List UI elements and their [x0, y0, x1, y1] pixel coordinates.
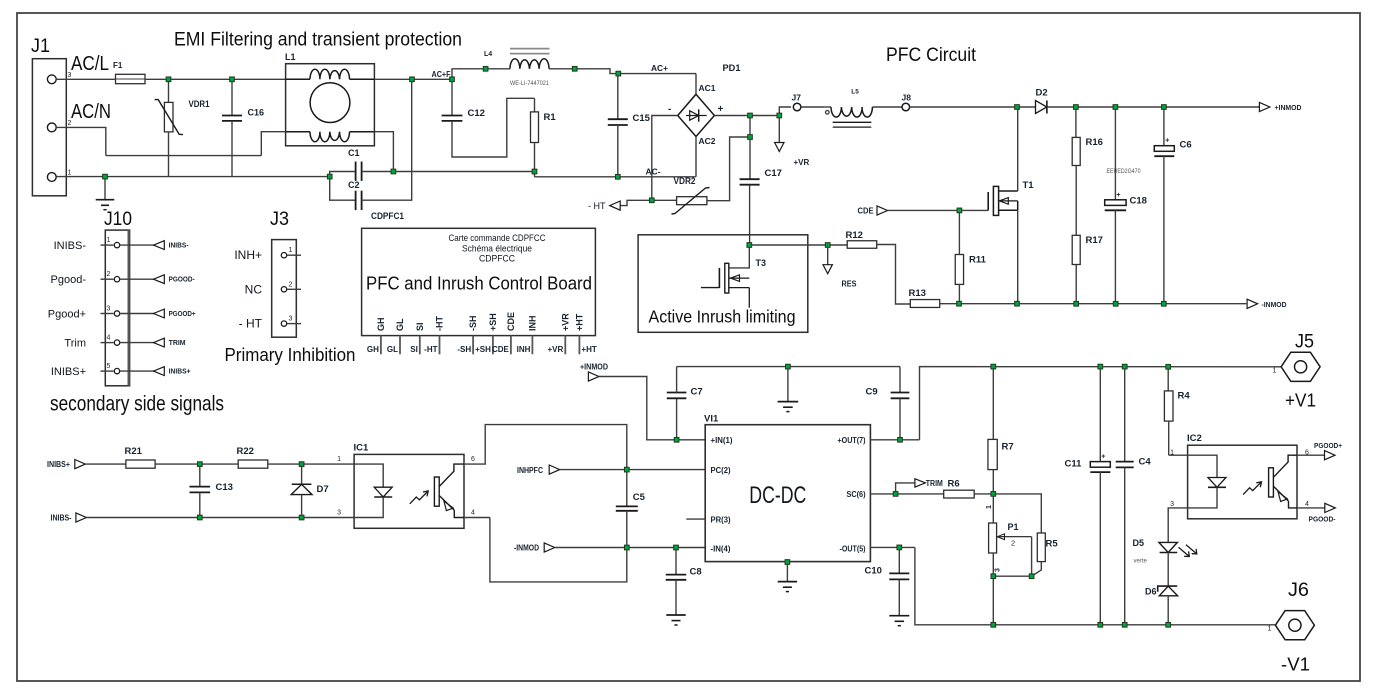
svg-text:-OUT(5): -OUT(5) [840, 544, 866, 553]
svg-text:R7: R7 [1002, 442, 1014, 453]
svg-text:secondary side signals: secondary side signals [50, 392, 224, 416]
svg-text:INH: INH [527, 316, 537, 332]
svg-text:Pgood+: Pgood+ [48, 308, 86, 320]
svg-text:P1: P1 [1008, 522, 1019, 532]
svg-text:PFC and Inrush Control Board: PFC and Inrush Control Board [366, 274, 592, 294]
svg-text:+: + [718, 104, 724, 115]
svg-text:R5: R5 [1046, 539, 1059, 550]
svg-text:-INMOD: -INMOD [514, 544, 539, 553]
svg-text:C4: C4 [1139, 457, 1152, 468]
svg-text:1: 1 [986, 505, 993, 509]
svg-text:Schéma électrique: Schéma électrique [462, 243, 532, 253]
svg-text:4: 4 [107, 335, 111, 342]
svg-text:-SH: -SH [468, 316, 478, 332]
svg-text:2: 2 [1011, 539, 1015, 548]
svg-text:C12: C12 [468, 108, 485, 119]
svg-text:AC1: AC1 [699, 84, 717, 93]
svg-text:C8: C8 [690, 567, 702, 578]
svg-text:-IN(4): -IN(4) [711, 544, 731, 553]
svg-text:GL: GL [387, 345, 398, 354]
svg-text:SC(6): SC(6) [847, 490, 866, 499]
svg-text:PGOOD-: PGOOD- [169, 277, 196, 284]
svg-text:-HT: -HT [435, 316, 445, 331]
svg-text:3: 3 [995, 568, 1002, 572]
svg-text:5: 5 [107, 363, 111, 370]
svg-text:PC(2): PC(2) [711, 466, 731, 475]
svg-text:PGOOD+: PGOOD+ [1314, 441, 1343, 450]
svg-text:C6: C6 [1180, 140, 1192, 151]
svg-text:CDE: CDE [858, 207, 875, 216]
svg-text:VDR2: VDR2 [674, 176, 696, 187]
svg-text:Trim: Trim [64, 337, 86, 349]
svg-text:J7: J7 [792, 93, 802, 103]
svg-text:J1: J1 [31, 36, 50, 57]
svg-text:R1: R1 [544, 112, 557, 123]
svg-text:R21: R21 [125, 446, 143, 457]
svg-text:R12: R12 [846, 230, 863, 241]
svg-text:GL: GL [395, 318, 405, 331]
svg-text:1: 1 [1268, 626, 1272, 633]
svg-text:R6: R6 [948, 479, 960, 490]
svg-text:INHPFC: INHPFC [517, 466, 543, 475]
svg-text:1: 1 [68, 170, 72, 177]
svg-text:D5: D5 [1133, 538, 1145, 548]
svg-text:CDE: CDE [492, 345, 510, 354]
svg-text:INIBS+: INIBS+ [169, 369, 191, 376]
svg-text:C17: C17 [765, 168, 782, 179]
svg-text:WE-LI-7447021: WE-LI-7447021 [510, 80, 549, 87]
svg-text:Primary Inhibition: Primary Inhibition [225, 344, 356, 365]
svg-text:+OUT(7): +OUT(7) [838, 436, 866, 445]
svg-text:C2: C2 [348, 180, 360, 190]
svg-text:CDPFC1: CDPFC1 [371, 211, 404, 221]
svg-text:3: 3 [337, 510, 341, 517]
svg-text:C9: C9 [866, 387, 878, 398]
svg-text:C5: C5 [633, 492, 646, 503]
svg-text:Carte commande CDPFCC: Carte commande CDPFCC [449, 233, 546, 243]
svg-text:-INMOD: -INMOD [1262, 300, 1288, 309]
svg-text:INIBS-: INIBS- [169, 243, 190, 250]
svg-text:AC/L: AC/L [71, 53, 109, 75]
svg-text:L5: L5 [851, 88, 859, 95]
svg-text:+HT: +HT [581, 345, 596, 354]
svg-text:C7: C7 [691, 387, 703, 398]
svg-text:1: 1 [289, 247, 293, 254]
svg-text:4: 4 [471, 510, 475, 517]
svg-text:R4: R4 [1178, 391, 1191, 402]
svg-text:D2: D2 [1036, 88, 1048, 99]
svg-text:PD1: PD1 [723, 63, 742, 74]
svg-text:1: 1 [337, 456, 341, 463]
svg-text:IC2: IC2 [1187, 433, 1202, 444]
svg-text:CDPFCC: CDPFCC [479, 254, 515, 264]
svg-text:C18: C18 [1130, 196, 1147, 207]
svg-text:GH: GH [367, 345, 379, 354]
svg-text:AC/N: AC/N [71, 101, 111, 123]
svg-text:- HT: - HT [239, 317, 263, 331]
svg-text:C16: C16 [248, 108, 265, 118]
svg-text:+VR: +VR [560, 313, 570, 331]
svg-text:TRIM: TRIM [926, 479, 943, 488]
svg-text:+VR: +VR [794, 158, 810, 167]
svg-text:+SH: +SH [475, 345, 491, 354]
svg-text:+: + [1165, 138, 1169, 145]
svg-text:-V1: -V1 [1281, 655, 1310, 675]
svg-text:C10: C10 [865, 566, 882, 577]
svg-text:-HT: -HT [424, 345, 437, 354]
svg-text:-: - [668, 104, 671, 115]
svg-text:DC-DC: DC-DC [749, 482, 806, 509]
svg-text:Pgood-: Pgood- [51, 274, 87, 286]
svg-text:- HT: - HT [588, 201, 606, 211]
svg-text:RES: RES [842, 280, 858, 289]
svg-text:R22: R22 [237, 446, 254, 457]
svg-text:EEUED2G470: EEUED2G470 [1107, 169, 1142, 175]
svg-text:J10: J10 [104, 209, 132, 230]
svg-text:VDR1: VDR1 [189, 99, 210, 109]
svg-text:1: 1 [1273, 368, 1277, 375]
svg-text:R11: R11 [969, 255, 987, 266]
svg-text:L4: L4 [484, 51, 492, 58]
svg-text:2: 2 [107, 271, 111, 278]
svg-text:INIBS-: INIBS- [51, 514, 72, 523]
svg-text:INH+: INH+ [234, 248, 262, 262]
svg-text:GH: GH [376, 318, 386, 332]
svg-text:+: + [1101, 454, 1105, 461]
svg-text:PGOOD-: PGOOD- [1309, 515, 1336, 524]
svg-text:2: 2 [289, 281, 293, 288]
svg-text:D7: D7 [317, 484, 329, 495]
svg-text:3: 3 [107, 306, 111, 313]
svg-text:AC2: AC2 [699, 137, 717, 146]
svg-text:+: + [1116, 192, 1120, 199]
svg-text:AC-: AC- [646, 168, 661, 177]
svg-text:Active Inrush limiting: Active Inrush limiting [649, 307, 796, 327]
svg-text:+VR: +VR [548, 345, 564, 354]
svg-text:J8: J8 [902, 93, 912, 103]
svg-text:C1: C1 [348, 148, 360, 158]
svg-text:CDE: CDE [506, 312, 516, 331]
svg-text:R17: R17 [1086, 235, 1103, 246]
svg-text:T3: T3 [756, 258, 767, 268]
svg-text:+HT: +HT [574, 313, 584, 331]
svg-text:6: 6 [471, 456, 475, 463]
svg-text:J3: J3 [270, 209, 289, 230]
svg-text:J5: J5 [1295, 332, 1314, 353]
svg-text:3: 3 [1170, 501, 1174, 508]
svg-text:1: 1 [107, 237, 111, 244]
svg-text:verte: verte [1134, 559, 1148, 565]
svg-text:INIBS+: INIBS+ [47, 460, 70, 469]
svg-text:+IN(1): +IN(1) [711, 436, 733, 445]
svg-text:C11: C11 [1065, 459, 1083, 470]
svg-text:IC1: IC1 [354, 443, 370, 454]
svg-text:PGOOD+: PGOOD+ [169, 311, 196, 318]
svg-text:4: 4 [1305, 501, 1309, 508]
svg-text:NC: NC [245, 282, 263, 296]
svg-text:-SH: -SH [457, 345, 471, 354]
svg-text:T1: T1 [1023, 180, 1035, 191]
svg-text:+INMOD: +INMOD [580, 363, 608, 372]
svg-text:TRIM: TRIM [169, 340, 186, 347]
svg-text:INIBS-: INIBS- [54, 240, 87, 252]
svg-text:+INMOD: +INMOD [1275, 103, 1303, 112]
svg-text:VI1: VI1 [704, 414, 719, 425]
svg-text:INH: INH [517, 345, 531, 354]
svg-text:R13: R13 [909, 288, 926, 299]
svg-text:L1: L1 [285, 52, 296, 62]
svg-text:SI: SI [410, 345, 418, 354]
svg-text:PR(3): PR(3) [711, 515, 731, 524]
svg-text:+SH: +SH [488, 313, 498, 331]
svg-text:3: 3 [289, 316, 293, 323]
svg-text:R16: R16 [1086, 137, 1103, 148]
svg-text:SI: SI [415, 322, 425, 331]
svg-text:+V1: +V1 [1285, 391, 1316, 411]
svg-text:D6: D6 [1145, 587, 1157, 597]
svg-text:F1: F1 [113, 61, 123, 70]
svg-text:PFC Circuit: PFC Circuit [886, 44, 977, 66]
svg-text:C13: C13 [216, 482, 233, 493]
svg-text:EMI Filtering and transient pr: EMI Filtering and transient protection [174, 30, 462, 51]
svg-text:AC+: AC+ [651, 64, 668, 73]
svg-text:INIBS+: INIBS+ [51, 366, 86, 378]
svg-text:J6: J6 [1288, 580, 1309, 601]
svg-text:AC+F: AC+F [432, 70, 451, 79]
svg-text:C15: C15 [633, 113, 651, 124]
